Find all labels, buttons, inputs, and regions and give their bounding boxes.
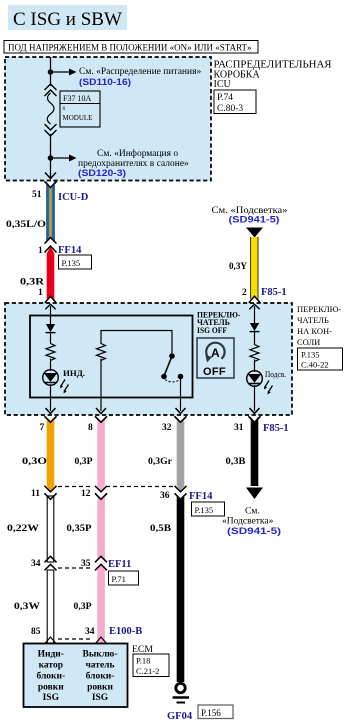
svg-text:11: 11 [31,489,40,499]
svg-text:0,22W: 0,22W [7,524,40,534]
svg-text:EF11: EF11 [108,559,131,570]
svg-text:0,3O: 0,3O [22,457,47,467]
wire switch to pin 32 [180,377,182,412]
svg-text:0,3P: 0,3P [75,457,93,467]
svg-text:OFF: OFF [203,366,226,378]
svg-text:ЧАТЕЛЬ: ЧАТЕЛЬ [297,315,329,325]
svg-text:P.71: P.71 [112,574,126,584]
svg-text:F85-1: F85-1 [261,287,287,298]
wire [50,332,52,344]
wire 0.35P pink [97,495,105,563]
svg-text:Выклю-: Выклю- [83,650,118,660]
wire 0.3W white [47,570,54,643]
resistor R3 [250,345,259,362]
connector FF14 pin 12 [81,486,107,500]
svg-text:34: 34 [85,627,95,637]
wire [254,331,256,345]
svg-text:ISG: ISG [43,693,60,703]
LED indicator [43,370,69,394]
exit arrow pin 7 [46,408,56,414]
svg-text:См.: См. [245,507,260,517]
svg-text:FF14: FF14 [189,491,213,502]
svg-text:0,3B: 0,3B [226,457,247,467]
svg-text:ICU: ICU [214,79,232,90]
diode D1 [46,324,56,333]
connector FF14 pin 1 [38,238,92,270]
svg-text:(SD941-5): (SD941-5) [229,215,280,226]
switch S1 [161,353,183,382]
svg-text:Р.74: Р.74 [217,93,233,103]
svg-text:F37 10A: F37 10A [63,94,91,103]
svg-text:MODULE: MODULE [63,114,93,122]
svg-text:0,3W: 0,3W [14,602,41,612]
switch inner box [30,316,193,398]
svg-text:НА КОН-: НА КОН- [297,326,332,336]
exit arrow pin 31 [250,408,260,414]
connector E100-B dashes [58,638,92,640]
svg-text:6: 6 [63,106,66,112]
wire main vertical in ICU [50,57,52,86]
label ISG OFF switch [197,311,241,335]
ICU dashed box [5,57,211,181]
svg-text:ECM: ECM [132,644,153,654]
connector EF11 row dashes [58,567,92,569]
svg-text:С.80-3: С.80-3 [217,104,243,114]
resistor R1 [46,344,55,361]
wire 0.3P pink lower [97,570,105,643]
wire [254,360,256,373]
svg-text:(SD120-3): (SD120-3) [78,168,126,179]
svg-text:P.18: P.18 [136,656,150,666]
svg-text:ровки: ровки [38,683,64,693]
ECM ref box [133,654,169,677]
svg-text:8: 8 [88,423,93,433]
svg-text:С ISG и SBW: С ISG и SBW [13,9,122,30]
node junction 2 [48,155,54,161]
svg-text:A: A [211,346,220,360]
svg-text:С.40-22: С.40-22 [301,360,329,370]
pin labels bottom of switch [40,423,289,434]
wire resistor to pin 8 [100,359,102,412]
wire 0.3Y yellow [250,237,258,303]
svg-text:P.156: P.156 [201,708,221,718]
connector FF14 pin 36 [160,486,225,516]
label see fuse info [78,148,189,179]
svg-text:См. «Информация о: См. «Информация о [97,148,178,159]
svg-text:85: 85 [31,627,41,637]
wire 0.5B black to ground [177,495,185,683]
svg-text:0,35P: 0,35P [67,524,92,534]
svg-text:блоки-: блоки- [86,671,115,682]
svg-text:1: 1 [38,246,43,256]
svg-text:См. «Распределение питания»: См. «Распределение питания» [79,67,201,77]
wire 0.3B black [251,417,259,487]
svg-text:ПЕРЕКЛЮ-: ПЕРЕКЛЮ- [297,304,341,314]
backlight branch wire entry [254,306,256,323]
ground GF04 [173,683,190,702]
see backlight bottom [222,488,281,538]
svg-text:0,3Y: 0,3Y [229,262,247,272]
ICU block label [214,60,332,91]
connector ICU-D pin 51 [32,173,89,204]
svg-text:катор: катор [39,661,63,671]
wire 0.22W white [45,493,57,562]
svg-text:51: 51 [32,190,42,200]
connector EF11 pin 34 [31,556,57,570]
svg-text:1: 1 [38,288,43,298]
node junction 1 [48,69,54,75]
svg-text:(SD110-16): (SD110-16) [79,77,131,88]
svg-text:чатель: чатель [85,661,114,671]
switch dashed box [5,303,292,415]
svg-text:ровки: ровки [87,683,113,693]
wire middle branch top [101,331,172,354]
svg-text:ISG OFF: ISG OFF [197,326,227,335]
svg-text:ИНД.: ИНД. [63,368,85,378]
svg-text:P.135: P.135 [195,505,214,515]
svg-text:F85-1: F85-1 [263,423,289,434]
exit arrow pin 32 [176,408,186,414]
ECM box [24,644,128,708]
ICU page ref box [214,90,256,114]
wire arrow to SD120-3 [51,155,77,162]
svg-text:35: 35 [81,559,91,569]
svg-text:32: 32 [162,423,172,433]
fuse F37 element [47,93,54,124]
wire to pin 31 [254,385,256,411]
resistor R2 [97,344,106,361]
svg-text:0,3P: 0,3P [74,602,92,612]
connector FF14 row dashes [58,486,174,488]
svg-text:2: 2 [242,288,247,298]
svg-text:7: 7 [40,423,45,433]
svg-text:ISG: ISG [92,693,109,703]
svg-text:СОЛИ: СОЛИ [297,337,320,347]
svg-text:36: 36 [160,491,170,501]
svg-text:0,3R: 0,3R [20,278,44,288]
svg-text:(SD941-5): (SD941-5) [227,526,281,537]
LED backlight [247,371,273,395]
console ref box [298,348,343,370]
connector FF14 pin 11 [31,486,57,500]
wire 0.3R red [47,253,55,303]
fuse F37 connector bottom [45,124,57,136]
svg-text:«Подсветка»: «Подсветка» [222,517,274,527]
wire 0.3P pink [97,417,105,487]
wire to pin 7 [50,384,52,411]
wire red entry into box [50,306,52,324]
connector entry chevron pin1 [46,297,56,303]
console switch label [297,304,341,347]
title bar [8,5,127,30]
svg-text:31: 31 [234,423,244,433]
svg-text:Р.135: Р.135 [301,350,320,360]
exit arrow pin 8 [96,408,106,414]
entry arrow pin 1 [45,304,55,309]
entry arrow pin 2 [249,304,259,309]
wire below fuse [50,134,52,174]
svg-text:0,5B: 0,5B [150,524,172,534]
svg-text:E100-B: E100-B [109,626,142,637]
wire [50,359,52,372]
svg-text:0,3Gr: 0,3Gr [148,457,173,467]
condition box [4,41,258,54]
svg-text:34: 34 [31,559,41,569]
wire 0.35L/O [45,182,57,244]
connector entry chevron pin2 [250,297,260,303]
ground ref box [198,705,233,719]
svg-text:блоки-: блоки- [36,671,65,682]
svg-text:C.21-2: C.21-2 [136,666,159,676]
svg-text:P.135: P.135 [62,258,81,268]
connector E100-B pin 85 [31,627,57,644]
connector EF11 pin 35 [81,556,139,585]
svg-text:Инди-: Инди- [38,650,64,660]
svg-text:FF14: FF14 [58,245,82,256]
svg-text:0,35L/O: 0,35L/O [6,220,46,230]
fuse F37 label box [60,91,100,127]
ISG OFF icon [197,338,234,378]
svg-text:12: 12 [81,489,91,499]
wire 0.3Gr gray [177,417,185,487]
svg-text:GF04: GF04 [167,711,193,722]
svg-text:ПОД НАПРЯЖЕНИЕМ В ПОЛОЖЕНИИ «O: ПОД НАПРЯЖЕНИЕМ В ПОЛОЖЕНИИ «ON» ИЛИ «ST… [8,43,252,53]
connector E100-B pin 34 [85,626,142,644]
svg-text:Подсв.: Подсв. [265,369,286,379]
fuse F37 connector top [45,84,57,96]
see backlight top [212,206,288,238]
label see power distribution [79,67,201,88]
wire arrow to SD110-16 [51,69,77,76]
diode D2 [250,323,260,332]
wire 0.3O orange [47,417,55,487]
svg-text:ICU-D: ICU-D [58,192,89,203]
